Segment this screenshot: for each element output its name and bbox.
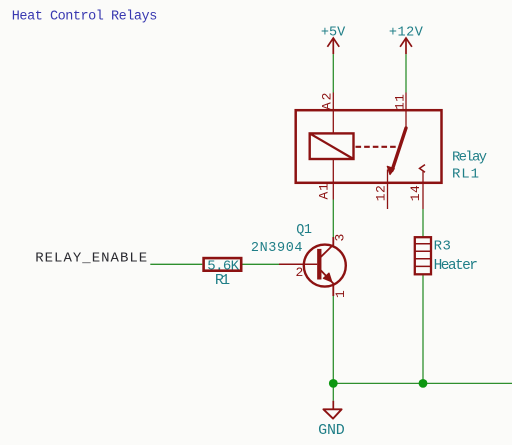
svg-text:1: 1 — [333, 290, 348, 298]
svg-text:+5V: +5V — [321, 26, 346, 41]
svg-text:+12V: +12V — [389, 26, 424, 41]
svg-text:Heat Control Relays: Heat Control Relays — [12, 9, 158, 24]
svg-text:14: 14 — [408, 185, 423, 201]
svg-text:RL1: RL1 — [452, 167, 479, 183]
svg-text:3: 3 — [333, 234, 348, 242]
svg-text:A1: A1 — [317, 183, 332, 200]
svg-text:GND: GND — [318, 422, 345, 439]
svg-text:R1: R1 — [215, 272, 230, 289]
svg-text:12: 12 — [374, 185, 389, 201]
svg-text:2: 2 — [296, 265, 304, 280]
svg-text:RELAY_ENABLE: RELAY_ENABLE — [35, 250, 147, 266]
svg-text:Heater: Heater — [434, 258, 478, 274]
svg-text:2N3904: 2N3904 — [251, 241, 303, 256]
svg-text:R3: R3 — [434, 239, 451, 255]
svg-text:A2: A2 — [320, 93, 335, 111]
svg-text:Q1: Q1 — [296, 223, 312, 238]
svg-text:11: 11 — [393, 94, 408, 110]
svg-text:Relay: Relay — [452, 149, 487, 165]
